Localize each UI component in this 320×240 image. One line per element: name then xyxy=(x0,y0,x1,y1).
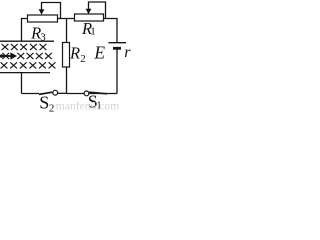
svg-text:R: R xyxy=(69,43,80,62)
svg-text:1: 1 xyxy=(90,26,96,38)
svg-text:r: r xyxy=(124,44,131,61)
svg-text:2: 2 xyxy=(80,53,86,65)
svg-text:3: 3 xyxy=(40,31,46,43)
svg-text:S: S xyxy=(39,92,49,112)
svg-text:2: 2 xyxy=(49,102,55,112)
svg-text:E: E xyxy=(93,43,105,63)
svg-text:manfen5.com: manfen5.com xyxy=(56,100,119,112)
